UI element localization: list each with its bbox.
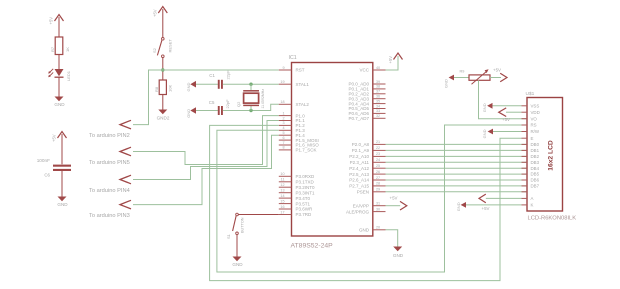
svg-text:35: 35 [376,99,380,103]
pin P3.0RXD (10) of IC1 [279,172,315,179]
wire [466,204,522,206]
wire PIN5 net (to P1.0) [133,116,279,165]
ground GND2 [157,110,170,121]
svg-text:P3.0RXD: P3.0RXD [296,174,316,179]
pin P0.4_AD4 (35) of IC1 [348,99,385,106]
pin P3.4T0 (14) of IC1 [279,194,311,201]
svg-text:DB2: DB2 [531,154,540,159]
pin RS of LCD [522,123,537,128]
svg-text:11: 11 [281,178,285,182]
node XTAL2 junction [249,109,252,112]
svg-text:ALE/PROG: ALE/PROG [346,209,370,214]
pin P2.7_A15 (28) of IC1 [349,182,385,189]
wire [196,110,218,112]
wire XTAL1 net [223,83,279,85]
svg-text:20: 20 [376,226,380,230]
wire data net D0 [386,143,528,145]
pin VDD of LCD [522,110,540,115]
svg-text:36: 36 [376,95,380,99]
pin P1.1 (2) of IC1 [279,116,305,123]
ground (C1) [186,81,196,92]
svg-text:+5V: +5V [388,56,393,64]
wire [506,111,522,113]
svg-text:30: 30 [376,207,380,211]
svg-text:38: 38 [376,85,380,89]
ground (IC1 pin 20) [393,247,404,259]
svg-text:R7: R7 [50,46,55,52]
svg-text:26: 26 [376,170,380,174]
pin P0.6_AD6 (33) of IC1 [348,109,385,116]
svg-text:P2.0_A8: P2.0_A8 [352,142,370,147]
svg-text:16x2 LCD: 16x2 LCD [548,140,555,171]
svg-text:GND: GND [232,262,243,267]
pin P3.1TXD (11) of IC1 [279,178,315,185]
pin R/W of LCD [522,129,540,134]
capacitor C6 100nF [37,158,71,178]
svg-text:VCC: VCC [359,68,369,73]
pin P3.5T1 (15) of IC1 [279,199,311,206]
svg-text:R/W: R/W [531,129,540,134]
resistor R8 [154,80,173,95]
pin VSS of LCD [522,103,540,108]
svg-text:39: 39 [376,80,380,84]
svg-text:1K: 1K [65,47,70,52]
wire PIN4 net (to P1.1) [133,121,279,180]
svg-text:K: K [531,203,534,208]
wire [493,131,522,133]
svg-text:11.0592MHz: 11.0592MHz [261,89,265,109]
svg-text:Q2: Q2 [236,101,241,107]
svg-text:PSEN: PSEN [357,190,369,195]
svg-text:P0.7_AD7: P0.7_AD7 [348,116,369,121]
svg-text:23: 23 [376,152,380,156]
ground (LCD K) [456,202,466,211]
pin P2.2_A10 (23) of IC1 [349,152,385,159]
wire [236,235,238,257]
pin P0.0_AD0 (39) of IC1 [348,80,385,87]
svg-text:GND: GND [57,202,68,207]
pin P1.2 (3) of IC1 [279,121,305,128]
pin P2.4_A12 (25) of IC1 [349,164,385,171]
svg-text:To arduino PIN2: To arduino PIN2 [89,133,130,139]
svg-text:+5V: +5V [390,195,398,200]
pin P2.1_A9 (22) of IC1 [352,146,386,153]
svg-text:P2.5_A13: P2.5_A13 [349,172,369,177]
svg-text:RST: RST [296,68,305,73]
svg-text:BUTTON: BUTTON [240,217,244,233]
svg-text:VSS: VSS [531,103,540,108]
supply +5V (reset branch) [153,7,168,38]
svg-text:DB4: DB4 [531,166,540,171]
svg-text:XTAL2: XTAL2 [296,102,310,107]
svg-text:S2: S2 [152,47,157,53]
wire [58,55,60,70]
svg-text:22pF: 22pF [225,99,230,109]
supply +5V (LED branch) [49,15,64,38]
svg-text:27: 27 [376,176,380,180]
svg-text:GND: GND [393,253,404,258]
wire [454,77,469,79]
pin DB2 of LCD [522,154,540,159]
svg-text:13: 13 [280,189,284,193]
node XTAL1 junction [249,83,252,86]
svg-text:P3.6WR: P3.6WR [296,207,314,212]
svg-text:AT89S52-24P: AT89S52-24P [291,243,334,250]
ground (C5) [186,107,196,118]
node RESET junction [161,68,164,71]
supply +5V (R9) [493,67,507,82]
svg-text:C6: C6 [44,173,50,178]
pin ALE/PROG (30) of IC1 [346,207,386,214]
svg-text:+5V: +5V [493,67,501,72]
svg-text:DB6: DB6 [531,178,540,183]
pin P0.7_AD7 (32) of IC1 [348,114,385,121]
capacitor C1 22pF [209,70,230,89]
svg-text:DB3: DB3 [531,160,540,165]
pointer To arduino PIN3 [89,200,131,219]
pin P1.4 (5) of IC1 [279,131,305,138]
svg-text:33: 33 [376,109,380,113]
svg-text:EA/VPP: EA/VPP [353,203,369,208]
svg-text:GND: GND [186,109,191,118]
pin DB7 of LCD [522,184,540,189]
svg-text:P2.2_A10: P2.2_A10 [349,154,369,159]
svg-text:8: 8 [282,146,284,150]
capacitor C5 22pF [209,99,230,115]
wire [162,95,164,110]
svg-text:VO: VO [531,116,538,121]
svg-text:10K: 10K [168,85,173,92]
svg-text:22: 22 [376,146,380,150]
svg-text:XTAL1: XTAL1 [296,82,310,87]
pin P1.3 (4) of IC1 [279,126,305,133]
svg-text:P2.6_A14: P2.6_A14 [349,178,369,183]
ground (R9) [444,75,455,88]
svg-text:E: E [531,136,534,141]
switch S2 RESET [152,38,173,58]
pin DB1 of LCD [522,148,540,153]
pin GND (20) of IC1 [359,226,386,233]
pin P3.2INT0 (12) of IC1 [279,183,315,190]
svg-text:P3.2INT0: P3.2INT0 [296,185,316,190]
svg-text:P3.1TXD: P3.1TXD [296,180,315,185]
LCD module U$1 body [526,91,577,221]
svg-text:GND: GND [444,79,449,88]
pointer To arduino PIN2 [89,120,131,139]
svg-text:C1: C1 [209,73,215,78]
svg-text:VDD: VDD [531,110,540,115]
svg-text:To arduino PIN4: To arduino PIN4 [89,188,130,194]
IC U1 AT89S52-24P body [289,55,373,249]
pin DB0 of LCD [522,142,540,147]
wire [490,77,501,79]
pin P2.5_A13 (26) of IC1 [349,170,385,177]
pin DB3 of LCD [522,160,540,165]
wire data net D2 [386,155,528,157]
resistor R7 [50,37,70,55]
svg-text:19: 19 [280,80,284,84]
wire data net D5 [386,173,528,175]
supply +5V (EA/VPP) [386,195,407,210]
svg-text:7: 7 [282,141,284,145]
svg-text:40: 40 [376,66,380,70]
svg-text:32: 32 [376,114,380,118]
trimmer R9 [460,69,491,84]
pin P2.3_A11 (24) of IC1 [350,158,386,165]
svg-text:4: 4 [282,126,284,130]
svg-text:P2.3_A11: P2.3_A11 [350,160,370,165]
svg-text:DB1: DB1 [531,148,540,153]
pin RST (9) of IC1 [279,66,305,73]
svg-text:R8: R8 [154,86,159,92]
svg-text:21: 21 [376,140,380,144]
pin P2.6_A14 (27) of IC1 [349,176,385,183]
wire [162,58,164,81]
svg-text:+5V: +5V [52,134,57,142]
svg-text:P3.4T0: P3.4T0 [296,196,311,201]
svg-text:P2.7_A15: P2.7_A15 [349,184,369,189]
wire E net (P1.2 to LCD E) [210,125,522,280]
pin P2.0_A8 (21) of IC1 [352,140,386,147]
svg-text:P3.3INT1: P3.3INT1 [296,190,316,195]
wire VO net (wiper) [479,80,528,118]
wire [493,105,522,107]
wire data net D6 [386,179,528,181]
svg-text:GND: GND [359,228,370,233]
svg-text:GND: GND [482,129,487,138]
ground (S1) [232,257,243,268]
svg-text:RS: RS [531,123,537,128]
svg-text:P2.1_A9: P2.1_A9 [352,148,370,153]
svg-text:+5V: +5V [49,17,54,25]
pin K of LCD [522,203,534,208]
svg-text:P2.4_A12: P2.4_A12 [349,166,369,171]
svg-text:+5V: +5V [482,206,490,211]
svg-text:To arduino PIN5: To arduino PIN5 [89,160,130,166]
wire data net D3 [386,161,528,163]
svg-text:GND: GND [482,103,487,112]
svg-text:12: 12 [280,183,284,187]
wire [486,197,522,199]
pin DB6 of LCD [522,178,540,183]
pin XTAL2 (18) of IC1 [279,100,310,107]
pin PSEN (29) of IC1 [357,188,386,195]
ground (LED branch) [54,97,65,108]
svg-text:P3.7RD: P3.7RD [296,212,313,217]
svg-text:31: 31 [376,202,380,206]
wire RST net [133,70,279,125]
svg-text:2: 2 [282,116,284,120]
crystal Q2 11.0592MHz [236,84,265,110]
svg-text:37: 37 [376,90,380,94]
wire RS net (P1.3 to LCD RS) [217,125,522,272]
ground (C6 branch) [57,197,68,208]
svg-text:14: 14 [280,194,284,198]
svg-text:16: 16 [280,205,284,209]
svg-text:28: 28 [376,182,380,186]
svg-text:+5V: +5V [153,9,158,17]
svg-text:GND2: GND2 [157,115,170,120]
wire data net D8 [386,191,528,193]
supply +5V (LCD A) [479,194,490,211]
pin XTAL1 (19) of IC1 [279,80,310,87]
pin A of LCD [522,196,534,201]
pin P1.7_SCK (8) of IC1 [279,146,317,153]
svg-text:22pF: 22pF [226,70,231,80]
ground (LCD R/W) [482,129,493,139]
pin DB5 of LCD [522,172,540,177]
svg-text:C5: C5 [209,100,215,105]
wire [61,171,63,197]
LED LED1 [48,69,71,81]
svg-text:GND: GND [54,102,65,107]
pin P1.5_MOSI (6) of IC1 [279,136,319,143]
svg-text:15: 15 [280,199,284,203]
svg-text:P3.5T1: P3.5T1 [296,201,311,206]
svg-text:17: 17 [280,210,284,214]
pin DB4 of LCD [522,166,540,171]
pin P0.5_AD5 (34) of IC1 [348,104,385,111]
pin P0.3_AD3 (36) of IC1 [348,95,385,102]
pin P1.6_MISO (7) of IC1 [279,141,319,148]
svg-text:18: 18 [280,100,284,104]
pin VO of LCD [522,116,538,121]
svg-text:DB7: DB7 [531,184,540,189]
svg-text:10: 10 [280,172,284,176]
supply +5V (C6 branch) [52,132,67,165]
wire data net D1 [386,149,528,151]
ground (LCD VSS) [482,103,493,112]
pin P0.1_AD1 (38) of IC1 [348,85,385,92]
svg-text:LCD-R6KON08ILK: LCD-R6KON08ILK [528,216,577,222]
svg-text:P1.7_SCK: P1.7_SCK [296,148,317,153]
pin P3.3INT1 (13) of IC1 [279,189,315,196]
svg-text:DB0: DB0 [531,142,540,147]
pointer To arduino PIN5 [89,147,131,166]
svg-text:25: 25 [376,164,380,168]
svg-text:RESET: RESET [168,39,173,53]
pointer To arduino PIN4 [89,175,131,194]
svg-text:100nF: 100nF [37,158,50,163]
svg-text:24: 24 [376,158,380,162]
svg-text:To arduino PIN3: To arduino PIN3 [89,213,130,219]
svg-text:U$1: U$1 [526,91,535,97]
svg-text:GND: GND [456,202,461,211]
svg-text:29: 29 [376,188,380,192]
pin EA/VPP (31) of IC1 [353,202,386,209]
wire data net D7 [386,185,528,187]
svg-text:IC1: IC1 [289,55,297,61]
pin E of LCD [522,136,534,141]
svg-text:R9: R9 [460,69,465,73]
pin VCC (40) of IC1 [359,66,385,73]
svg-text:LED1: LED1 [66,70,71,81]
svg-text:6: 6 [282,136,284,140]
pin P3.6WR (16) of IC1 [279,205,313,212]
wire PIN3 net (to P1.4) [133,135,279,204]
svg-text:5: 5 [282,131,284,135]
svg-text:GND: GND [186,83,191,92]
svg-text:S1: S1 [226,233,231,239]
svg-text:A: A [531,196,534,201]
pin P0.2_AD2 (37) of IC1 [348,90,385,97]
svg-text:DB5: DB5 [531,172,540,177]
wire [238,214,278,216]
switch S1 BUTTON [226,213,244,239]
wire GND net (pin 20) [386,230,398,247]
svg-text:1: 1 [282,111,284,115]
wire [58,77,60,96]
svg-text:3: 3 [282,121,284,125]
supply +5V (LCD VDD) [499,108,510,122]
pin NC of LCD [522,191,528,193]
wire [196,83,218,85]
supply +5V (VCC pin 40) [386,53,403,70]
wire XTAL2 net [223,104,279,110]
svg-text:34: 34 [376,104,380,108]
svg-text:+5V: +5V [502,117,510,122]
pin P1.0 (1) of IC1 [279,111,305,118]
wire data net D4 [386,167,528,169]
svg-text:9: 9 [282,66,284,70]
pin P3.7RD (17) of IC1 [279,210,312,217]
